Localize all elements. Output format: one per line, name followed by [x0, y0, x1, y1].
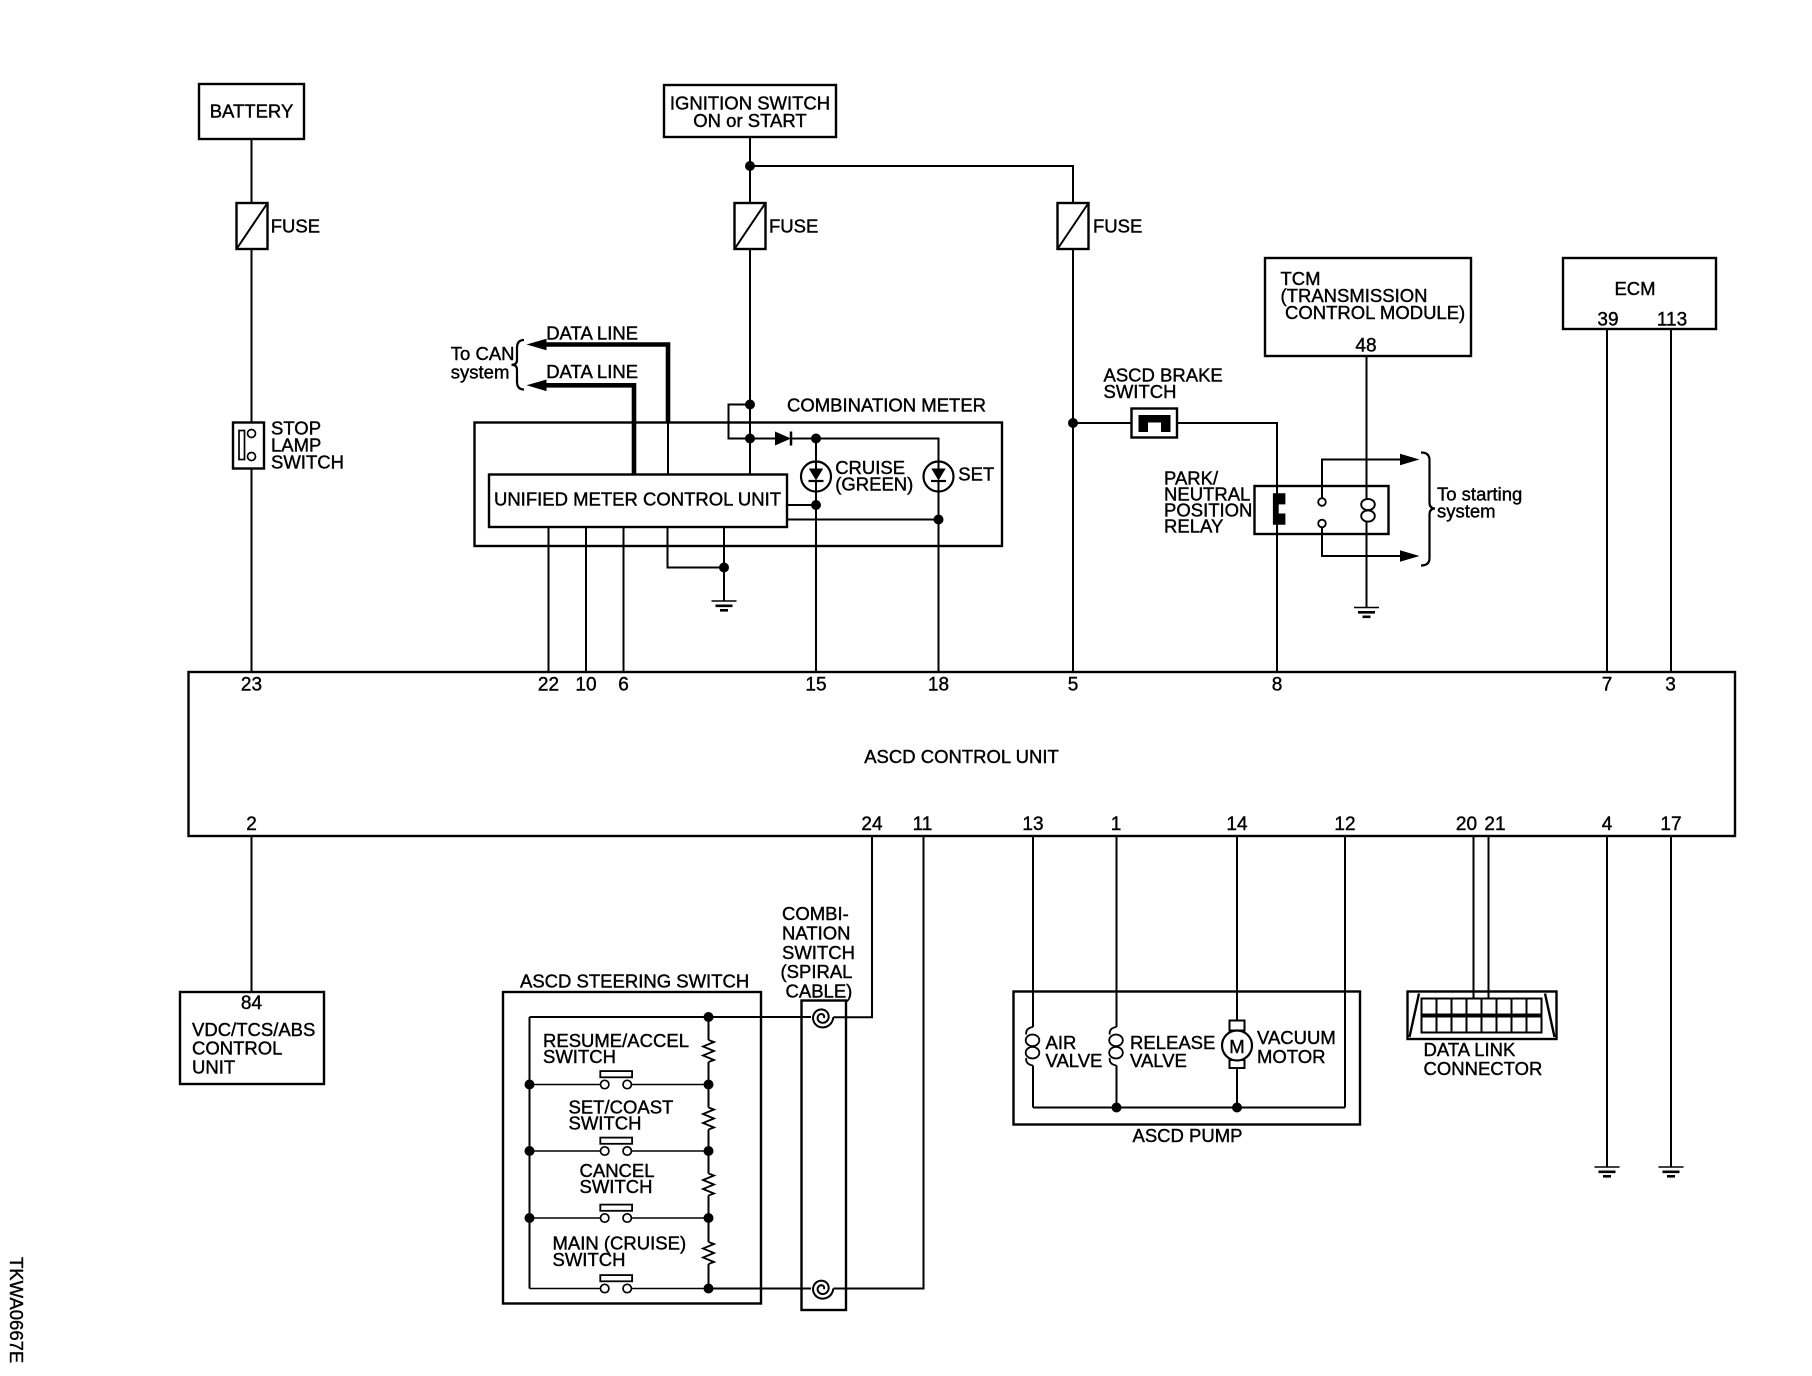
air valve coil: [1026, 1027, 1103, 1071]
wire ECM 113 to pin 3: [1670, 329, 1672, 672]
data link connector: [1408, 992, 1557, 1080]
relay contact top: [1318, 498, 1326, 506]
combination switch spiral cable box: [802, 1001, 847, 1311]
wire UMCU to ground: [723, 527, 725, 601]
set/coast switch row: [530, 1097, 709, 1156]
wire UMCU ground branch: [668, 527, 725, 568]
resistor R1: [703, 1040, 714, 1062]
wire air valve to pump bus: [1032, 1066, 1034, 1108]
node meter feed upper: [745, 400, 755, 410]
svg-text:FUSE: FUSE: [271, 216, 320, 237]
svg-text:DATA LINE: DATA LINE: [546, 322, 638, 343]
wire pin 17 to ground: [1670, 836, 1672, 1167]
node left bus row3: [525, 1213, 535, 1223]
svg-text:VALVE: VALVE: [1130, 1050, 1187, 1071]
wire pin 21 to data link connector: [1488, 836, 1490, 999]
VDC/TCS/ABS control unit: [180, 992, 324, 1084]
combination meter box: [475, 423, 1003, 547]
svg-text:SWITCH: SWITCH: [553, 1249, 626, 1270]
svg-text:(GREEN): (GREEN): [835, 474, 913, 495]
stop lamp switch S1: [233, 417, 344, 472]
main (cruise) switch row: [530, 1232, 709, 1292]
wire cruise lamp column to pin 15: [815, 439, 817, 673]
ignition switch: [664, 85, 836, 137]
wire pin 2 to VDC unit: [251, 836, 253, 992]
unified meter control unit: [489, 475, 787, 528]
park/neutral position relay: [1164, 468, 1389, 537]
wire to diode: [750, 438, 775, 440]
svg-text:CABLE): CABLE): [786, 981, 853, 1002]
spiral contact top: [813, 1009, 833, 1027]
svg-text:ASCD PUMP: ASCD PUMP: [1133, 1125, 1243, 1146]
node left bus row2: [525, 1146, 535, 1156]
svg-text:UNIFIED METER CONTROL UNIT: UNIFIED METER CONTROL UNIT: [494, 489, 781, 510]
wire stop lamp switch to ASCD control unit pin 23: [251, 469, 253, 673]
resistor R4: [703, 1242, 714, 1264]
node release valve bus: [1112, 1103, 1122, 1113]
node left bus row1: [525, 1080, 535, 1090]
wire fuse3 to pin 5: [1072, 249, 1074, 672]
ECM box: [1563, 258, 1716, 331]
svg-text:system: system: [451, 362, 510, 383]
svg-text:14: 14: [1226, 814, 1248, 835]
node cruise branch: [811, 434, 821, 444]
svg-text:3: 3: [1665, 675, 1676, 696]
wire UMCU to pin 10: [585, 527, 587, 672]
svg-text:ON or START: ON or START: [693, 110, 806, 131]
wire steering switch to bottom spiral: [709, 1288, 812, 1290]
wire pin 13 to air valve: [1032, 836, 1034, 1027]
svg-text:2: 2: [246, 814, 257, 835]
svg-text:TKWA0667E: TKWA0667E: [6, 1257, 27, 1363]
spiral contact bottom: [813, 1281, 833, 1299]
data line to CAN upper: [527, 322, 669, 474]
wire diode to lamps: [791, 439, 939, 462]
data line to CAN lower: [527, 361, 639, 475]
svg-text:SWITCH: SWITCH: [782, 942, 855, 963]
svg-text:(SPIRAL: (SPIRAL: [781, 961, 853, 982]
svg-text:ASCD STEERING SWITCH: ASCD STEERING SWITCH: [520, 970, 749, 991]
node vacuum motor bus: [1232, 1103, 1242, 1113]
svg-text:SWITCH: SWITCH: [271, 451, 344, 472]
resume/accel switch row: [530, 1030, 709, 1089]
svg-text:39: 39: [1597, 310, 1618, 331]
label combination switch spiral cable: [781, 903, 855, 1002]
svg-text:SWITCH: SWITCH: [580, 1176, 653, 1197]
ground pin 4: [1595, 1167, 1620, 1176]
svg-text:FUSE: FUSE: [1093, 216, 1142, 237]
svg-text:84: 84: [241, 993, 263, 1014]
svg-text:1: 1: [1111, 814, 1122, 835]
fuse F2: [735, 203, 819, 249]
wire UMCU to set lamp: [787, 519, 939, 521]
svg-text:SWITCH: SWITCH: [569, 1112, 642, 1133]
svg-text:NATION: NATION: [782, 922, 851, 943]
svg-text:15: 15: [805, 675, 826, 696]
wire pin 14 to vacuum motor: [1236, 836, 1238, 1021]
ASCD control unit box: [189, 672, 1736, 836]
svg-text:system: system: [1437, 501, 1496, 522]
wire UMCU to cruise lamp: [787, 504, 816, 506]
wire TCM pin 48 to relay coil and ground: [1366, 356, 1368, 500]
svg-text:MOTOR: MOTOR: [1257, 1046, 1326, 1067]
wire pin 20 to data link connector: [1473, 836, 1475, 999]
svg-text:VALVE: VALVE: [1046, 1050, 1103, 1071]
svg-text:BATTERY: BATTERY: [210, 101, 294, 122]
brace to starting system: [1421, 453, 1435, 566]
diode D1: [775, 432, 791, 446]
svg-text:22: 22: [538, 675, 559, 696]
brace to CAN system: [512, 340, 525, 390]
svg-text:CONNECTOR: CONNECTOR: [1424, 1058, 1543, 1079]
wire ECM 39 to pin 7: [1606, 329, 1608, 672]
resistor R3: [703, 1174, 714, 1196]
ASCD pump box: [1014, 992, 1361, 1147]
wire steering switch to top spiral: [709, 1016, 812, 1018]
wire vacuum motor to pump bus: [1236, 1068, 1238, 1108]
svg-text:21: 21: [1484, 814, 1505, 835]
indicator lamp SET: [924, 462, 995, 492]
svg-text:8: 8: [1272, 675, 1283, 696]
svg-text:17: 17: [1660, 814, 1681, 835]
svg-text:48: 48: [1355, 336, 1376, 357]
svg-text:M: M: [1229, 1036, 1244, 1057]
node set lamp bottom: [934, 515, 944, 525]
ground pin 17: [1659, 1167, 1684, 1176]
wire fuse1 to stop lamp switch: [251, 249, 253, 423]
svg-text:SET: SET: [958, 463, 994, 484]
pump bus: [1033, 1107, 1345, 1109]
indicator lamp CRUISE (GREEN): [801, 457, 913, 495]
wire bottom spiral to pin 11: [833, 836, 923, 1289]
svg-text:SWITCH: SWITCH: [543, 1046, 616, 1067]
fuse F3: [1058, 203, 1143, 249]
node right bus row1: [704, 1080, 714, 1090]
node brake switch junction: [1068, 418, 1078, 428]
svg-text:CONTROL: CONTROL: [192, 1038, 282, 1059]
wire relay contact top to starting system: [1322, 454, 1420, 499]
svg-text:RELAY: RELAY: [1164, 516, 1223, 537]
steering switch right bus segments: [708, 1017, 710, 1289]
svg-text:4: 4: [1602, 814, 1613, 835]
svg-text:6: 6: [618, 675, 629, 696]
fuse F1: [237, 203, 321, 249]
battery B1: [199, 84, 304, 139]
wire top spiral to pin 24: [833, 836, 872, 1017]
svg-text:13: 13: [1022, 814, 1043, 835]
svg-text:23: 23: [241, 675, 262, 696]
svg-text:ECM: ECM: [1614, 278, 1655, 299]
relay movable contact: [1273, 493, 1286, 524]
svg-text:5: 5: [1068, 675, 1079, 696]
svg-text:12: 12: [1334, 814, 1355, 835]
svg-text:COMBINATION METER: COMBINATION METER: [787, 395, 986, 416]
svg-text:18: 18: [928, 675, 949, 696]
wire UMCU to pin 6: [623, 527, 625, 672]
node ground junction: [719, 563, 729, 573]
wire junction to brake switch: [1073, 422, 1132, 424]
wire fuse2 down to combination meter: [749, 249, 751, 475]
ground meter: [712, 601, 737, 610]
svg-text:CONTROL MODULE): CONTROL MODULE): [1285, 302, 1465, 323]
node meter feed lower: [745, 434, 755, 444]
node right bus bottom: [704, 1284, 714, 1294]
ground relay: [1354, 608, 1379, 617]
wire brake switch to relay: [1177, 423, 1277, 672]
steering switch inner frame left bus: [529, 1017, 531, 1289]
svg-text:11: 11: [913, 814, 933, 835]
svg-text:7: 7: [1602, 675, 1613, 696]
wire release valve to pump bus: [1116, 1066, 1118, 1108]
svg-text:DATA LINK: DATA LINK: [1424, 1039, 1517, 1060]
node right bus row2: [704, 1146, 714, 1156]
ASCD steering switch box: [503, 992, 761, 1304]
node ignition junction: [745, 161, 755, 171]
label To CAN system: [451, 343, 515, 383]
node right bus row3: [704, 1213, 714, 1223]
node right bus top: [704, 1012, 714, 1022]
svg-text:10: 10: [575, 675, 596, 696]
release valve coil: [1109, 1027, 1215, 1071]
wire relay contact bottom to starting system: [1322, 527, 1420, 562]
cancel switch row: [530, 1160, 709, 1222]
resistor R2: [703, 1108, 714, 1130]
svg-text:DATA LINE: DATA LINE: [546, 361, 638, 382]
wire pin 4 to ground: [1606, 836, 1608, 1167]
wire battery to fuse1: [251, 139, 253, 203]
svg-text:COMBI-: COMBI-: [782, 903, 849, 924]
wire junction to fuse3: [750, 166, 1073, 203]
svg-text:FUSE: FUSE: [769, 216, 818, 237]
svg-text:ASCD CONTROL UNIT: ASCD CONTROL UNIT: [864, 746, 1059, 767]
steering switch inner frame top: [530, 1016, 709, 1018]
svg-text:20: 20: [1456, 814, 1477, 835]
ASCD brake switch: [1104, 364, 1223, 437]
svg-text:24: 24: [861, 814, 883, 835]
wire feed jog: [729, 405, 751, 439]
relay contact bottom: [1318, 520, 1326, 528]
wire ignition switch to fuse2: [749, 137, 751, 203]
wire pin 12 to pump bus: [1344, 836, 1346, 1108]
svg-text:VACUUM: VACUUM: [1257, 1027, 1336, 1048]
wire UMCU to pin 22: [548, 527, 550, 672]
svg-text:SWITCH: SWITCH: [1104, 381, 1177, 402]
relay coil: [1361, 499, 1375, 522]
node cruise lamp bottom: [811, 500, 821, 510]
label to starting system: [1437, 484, 1522, 522]
svg-text:113: 113: [1657, 310, 1687, 331]
svg-text:UNIT: UNIT: [192, 1057, 235, 1078]
wire pin 1 to release valve: [1116, 836, 1118, 1027]
wire set lamp column to pin 18: [938, 462, 940, 673]
vacuum motor M1: [1222, 1021, 1336, 1069]
TCM box: [1265, 258, 1471, 357]
